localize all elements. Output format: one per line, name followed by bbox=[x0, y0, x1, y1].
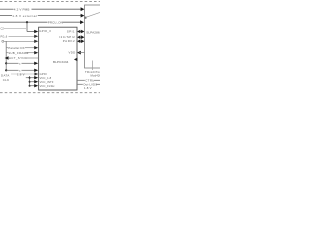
wire net SUB_FRAME into U1 bbox=[6, 51, 38, 55]
junction 1.8V bus row VCC_INTF bbox=[29, 81, 31, 83]
svg-text:1.8 V: 1.8 V bbox=[84, 86, 92, 90]
svg-text:4.2 V PMB: 4.2 V PMB bbox=[14, 7, 30, 11]
svg-text:CLK: CLK bbox=[3, 78, 10, 82]
junction on bus at CLK row bbox=[5, 69, 7, 71]
bus stem vertical at left bbox=[5, 41, 7, 70]
svg-text:1.8 V: 1.8 V bbox=[17, 73, 25, 77]
svg-text:Mod426: Mod426 bbox=[91, 74, 101, 78]
svg-text:SLPA2868: SLPA2868 bbox=[86, 30, 100, 34]
junction on bus at DATA row bbox=[5, 62, 7, 64]
wire DATA stub into U1 GPIO pin bbox=[11, 72, 38, 75]
svg-text:PARK2: PARK2 bbox=[63, 39, 76, 43]
IC U2 SLPA2868 (right module box) bbox=[85, 5, 102, 68]
wire RESET2 link U1 to U2 (bidirectional) bbox=[77, 35, 84, 39]
svg-text:SUB_FRAME: SUB_FRAME bbox=[8, 51, 28, 55]
svg-text:Parallel Db: Parallel Db bbox=[8, 46, 25, 50]
junction on PRCU_ON branching to U1 GPIO_3 bbox=[26, 21, 28, 23]
dashed frame top (decorative) bbox=[0, 0, 100, 2]
svg-text:GPIO: GPIO bbox=[40, 72, 47, 76]
wire into VCC_FLSH pin bbox=[30, 84, 39, 87]
svg-text:ACT_SYNC: ACT_SYNC bbox=[9, 56, 27, 60]
svg-text:BLPC3434: BLPC3434 bbox=[53, 60, 69, 64]
svg-text:VDD: VDD bbox=[68, 51, 75, 55]
junction 1.8V bus row VCC_FLSH bbox=[29, 85, 31, 87]
wire net 1.8V external to U2 pin bbox=[0, 14, 84, 18]
wire net with ring terminal into U1 bbox=[2, 40, 38, 43]
wire net PRCU_ON to U2 pin bbox=[0, 20, 84, 24]
svg-text:C2: C2 bbox=[1, 26, 5, 30]
wire net Parallel Db into U1 bbox=[6, 46, 38, 50]
wire net Out-LVDS out right bbox=[77, 83, 100, 87]
IC U1 BLPC3434 (baseband box) bbox=[39, 27, 77, 90]
pin stub below U2 bbox=[92, 61, 94, 71]
arrow into U1 right edge lower bbox=[74, 58, 78, 62]
svg-text:VCC_1.8: VCC_1.8 bbox=[40, 76, 52, 80]
wire faint CLK line upper left bbox=[1, 26, 27, 30]
svg-text:1.8 V external: 1.8 V external bbox=[12, 14, 37, 18]
svg-text:PRCU_ON: PRCU_ON bbox=[48, 20, 63, 24]
svg-text:VCC_FLSH: VCC_FLSH bbox=[40, 84, 55, 88]
wire net PIO_6 into U1 bbox=[1, 34, 39, 38]
wire net I2C data into U1 bbox=[6, 62, 38, 66]
wire into VCC_1.8 pin bbox=[30, 76, 39, 79]
svg-text:VCC_INTF: VCC_INTF bbox=[40, 80, 54, 84]
wire 1.8V feed to bus bbox=[26, 76, 30, 86]
wire PARK2 link U1 to U2 (bidirectional) bbox=[77, 39, 84, 43]
svg-text:PO_6: PO_6 bbox=[1, 34, 8, 38]
wire branch PRCU_ON down to U1 GPIO_3 pin bbox=[27, 22, 38, 33]
wire internal diagonal from 1.8V pin inside U2 bbox=[84, 12, 100, 18]
svg-text:GPIO_3: GPIO_3 bbox=[39, 29, 51, 33]
wire VDD link U1 to U2 bbox=[77, 51, 84, 55]
wire net 4.2V PMB to U2 pin bbox=[0, 7, 84, 11]
wire into VCC_INTF pin bbox=[30, 80, 39, 83]
wire SPI1 link U1 to U2 (bidirectional) bbox=[77, 30, 84, 34]
wire net ACT_SYNC out of U1 bbox=[5, 56, 39, 60]
junction 1.8V bus row VCC_1.8 bbox=[29, 77, 31, 79]
wire net I2C clock into U1 bbox=[6, 69, 38, 73]
wire net CTRL out right bbox=[77, 79, 100, 83]
svg-text:SPI1: SPI1 bbox=[67, 29, 75, 33]
